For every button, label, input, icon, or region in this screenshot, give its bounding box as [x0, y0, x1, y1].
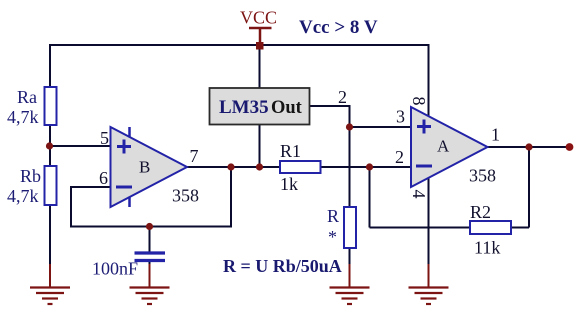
node A junction at Ra Rb pin5	[46, 142, 53, 149]
svg-text:100nF: 100nF	[92, 259, 138, 279]
svg-text:3: 3	[396, 107, 405, 127]
VCC power symbol	[249, 28, 272, 50]
wire capacitor top stem	[149, 227, 151, 253]
node pin2 junction	[366, 163, 373, 170]
wire feedback B right vertical	[230, 167, 232, 227]
svg-text:4: 4	[409, 190, 429, 199]
svg-text:Vcc > 8 V: Vcc > 8 V	[299, 17, 378, 38]
ground under Rb	[30, 264, 70, 304]
wire A output	[486, 146, 569, 148]
wire pin 4 to ground	[428, 178, 430, 268]
svg-text:4,7k: 4,7k	[7, 186, 39, 206]
node B output junction	[227, 163, 234, 170]
wire A feedback bottom to R2	[370, 227, 472, 229]
wire R star bottom to ground	[349, 247, 351, 268]
svg-text:A: A	[437, 137, 450, 156]
wire LM35 out pin 2 right	[310, 105, 350, 107]
svg-text:8: 8	[409, 97, 429, 106]
svg-text:R = U Rb/50uA: R = U Rb/50uA	[223, 256, 342, 276]
svg-text:Out: Out	[271, 98, 303, 118]
wire pin 3 input	[350, 126, 412, 128]
wire B output to A pin 2	[186, 166, 281, 168]
ground under op-amp A pin 4	[409, 264, 449, 304]
wire top rail	[50, 44, 429, 46]
wire R2 right to output vertical	[510, 227, 529, 229]
svg-text:1k: 1k	[280, 174, 298, 194]
svg-text:11k: 11k	[474, 238, 500, 258]
svg-text:*: *	[328, 227, 337, 247]
wire left vertical from rail to Ra	[49, 44, 51, 88]
LM35 block	[210, 88, 310, 125]
wire VCC to LM35 top	[259, 45, 261, 89]
resistor Ra	[45, 87, 57, 125]
wire LM35 node down to R star	[349, 105, 351, 208]
svg-text:2: 2	[338, 87, 347, 107]
wire pin 8 supply vertical	[428, 44, 430, 116]
wire pin 6 input	[71, 186, 111, 188]
wire feedback B bottom	[70, 226, 232, 228]
svg-text:LM35: LM35	[219, 97, 269, 118]
node capacitor junction	[146, 223, 153, 230]
svg-text:2: 2	[395, 147, 404, 167]
svg-text:R2: R2	[470, 202, 491, 222]
svg-text:B: B	[139, 158, 150, 177]
node output end	[566, 143, 574, 151]
wire Rb bottom to ground	[49, 204, 51, 268]
wire R1 right to op-amp A pin 2	[320, 166, 411, 168]
svg-text:Rb: Rb	[20, 166, 41, 186]
svg-text:R1: R1	[280, 141, 301, 161]
svg-text:6: 6	[99, 168, 108, 188]
wire LM35 bottom to node	[259, 124, 261, 167]
ground under R star	[330, 264, 370, 304]
op-amp U1B triangle	[111, 127, 188, 207]
wire pin 5 input	[50, 145, 111, 147]
svg-text:7: 7	[190, 146, 199, 166]
wire A feedback left vertical	[369, 167, 371, 228]
resistor R2	[470, 221, 511, 234]
wire Ra bottom to Rb top through node	[49, 124, 51, 168]
op-amp U1A triangle	[411, 107, 488, 187]
svg-text:1: 1	[491, 125, 500, 145]
svg-text:5: 5	[100, 128, 109, 148]
svg-text:358: 358	[469, 166, 496, 186]
ground under capacitor	[130, 264, 170, 304]
node LM35 ground pin junction	[256, 163, 263, 170]
node output feedback junction	[525, 143, 532, 150]
svg-text:4,7k: 4,7k	[7, 107, 39, 127]
capacitor C1 100nF	[135, 253, 166, 261]
resistor R1	[280, 161, 321, 173]
wire output feedback vertical	[528, 147, 530, 228]
resistor R star	[344, 207, 356, 248]
node pin3 junction	[346, 123, 353, 130]
wire feedback B left vertical	[70, 186, 72, 227]
svg-text:VCC: VCC	[240, 8, 277, 28]
svg-text:358: 358	[172, 186, 199, 206]
resistor Rb	[45, 166, 57, 205]
wire capacitor bottom stem	[149, 262, 151, 268]
svg-text:Ra: Ra	[17, 87, 37, 107]
svg-text:R: R	[327, 206, 339, 226]
